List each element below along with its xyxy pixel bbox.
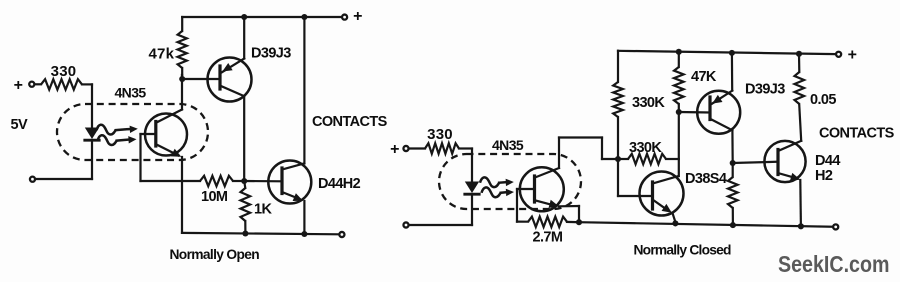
svg-text:Normally Open: Normally Open (170, 247, 260, 262)
svg-text:H2: H2 (815, 168, 833, 184)
svg-text:4N35: 4N35 (492, 137, 524, 153)
svg-text:10M: 10M (201, 189, 228, 205)
svg-text:330K: 330K (632, 95, 665, 111)
svg-text:47K: 47K (691, 69, 717, 85)
svg-text:+: + (390, 141, 399, 158)
svg-text:5V: 5V (11, 117, 28, 133)
svg-text:D44: D44 (815, 153, 840, 169)
svg-text:D39J3: D39J3 (251, 46, 291, 62)
svg-text:D38S4: D38S4 (685, 171, 727, 187)
svg-text:330: 330 (51, 63, 77, 80)
svg-text:CONTACTS: CONTACTS (312, 114, 388, 130)
svg-text:SeekIC.com: SeekIC.com (778, 251, 890, 277)
svg-text:1K: 1K (254, 202, 272, 218)
svg-text:D39J3: D39J3 (745, 82, 785, 98)
svg-text:0.05: 0.05 (810, 92, 836, 108)
svg-text:330K: 330K (629, 140, 662, 156)
svg-text:CONTACTS: CONTACTS (819, 126, 895, 142)
svg-text:4N35: 4N35 (115, 85, 147, 101)
svg-text:+: + (14, 77, 23, 94)
svg-text:330: 330 (427, 126, 453, 143)
svg-text:47k: 47k (149, 46, 175, 63)
svg-text:D44H2: D44H2 (318, 176, 361, 192)
svg-text:Normally Closed: Normally Closed (634, 243, 732, 258)
svg-text:+: + (848, 46, 857, 63)
svg-text:2.7M: 2.7M (533, 230, 563, 246)
svg-text:+: + (353, 8, 362, 25)
